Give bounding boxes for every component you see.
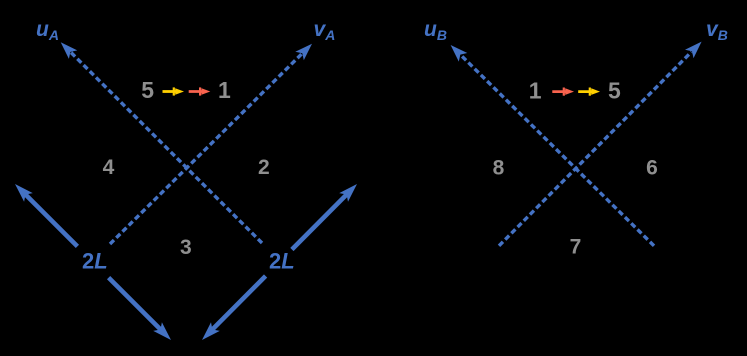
svg-text:1: 1 xyxy=(529,78,542,104)
svg-text:5: 5 xyxy=(608,78,621,104)
svg-text:8: 8 xyxy=(493,157,505,180)
svg-text:3: 3 xyxy=(180,236,192,259)
svg-text:2L: 2L xyxy=(82,249,108,274)
svg-text:2: 2 xyxy=(258,156,270,179)
svg-text:7: 7 xyxy=(570,236,582,259)
svg-text:4: 4 xyxy=(103,156,115,179)
svg-text:6: 6 xyxy=(646,157,658,180)
svg-text:2L: 2L xyxy=(269,249,295,274)
svg-text:5: 5 xyxy=(141,77,154,103)
svg-text:1: 1 xyxy=(218,77,231,103)
